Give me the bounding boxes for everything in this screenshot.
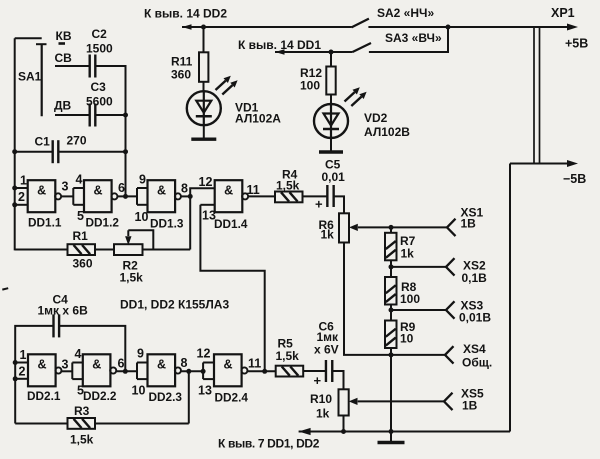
wire [332,371,343,389]
svg-text:0,01В: 0,01В [459,311,491,325]
node DD2.3 input tie [137,363,148,380]
LED VD1 emission arrows [216,76,238,95]
connector XS2 [446,258,455,275]
junction dot SA3 riser [446,25,451,30]
junction dot [201,369,206,374]
op-amp DD2.2 gate [83,354,116,386]
junction dot [188,194,193,199]
wire [344,243,445,355]
junction dot [123,113,128,118]
wire [15,37,42,39]
wire [368,26,569,28]
svg-text:100: 100 [300,79,320,93]
svg-text:5: 5 [77,384,84,398]
svg-text:DD1.4: DD1.4 [214,217,248,231]
junction dot [389,225,394,230]
wire [15,378,28,380]
svg-text:C2: C2 [92,27,108,41]
resistor R2 [114,244,143,255]
svg-text:10: 10 [135,210,149,224]
node K vyv 7 arrow [299,428,311,435]
switch SA1 [36,44,47,116]
svg-text:XS4: XS4 [463,342,486,356]
junction dot R11 tap [201,25,206,30]
node DD1.3 input tie [137,188,148,205]
node R6 wiper arrow [349,224,358,231]
wire [128,230,153,249]
svg-text:13: 13 [198,384,212,398]
svg-text:1500: 1500 [86,42,113,56]
wire [203,82,205,92]
capacitor C5 [326,185,328,207]
node R10 wiper arrow [349,398,358,405]
svg-text:&: & [37,184,46,198]
resistor R1 [68,244,96,255]
wire [203,27,205,52]
svg-text:0,1В: 0,1В [462,271,488,285]
svg-text:5: 5 [77,209,84,223]
op-amp DD1.3 gate [148,180,181,212]
wire [189,196,191,249]
svg-text:DD1.1: DD1.1 [28,216,62,230]
connector XS4 [445,346,454,363]
svg-text:360: 360 [73,257,93,271]
wire [247,370,276,372]
svg-text:5600: 5600 [86,95,113,109]
wire [358,226,447,228]
junction dot [12,149,17,154]
svg-text:270: 270 [67,134,87,148]
ground [191,137,216,140]
wire [390,260,392,277]
svg-text:R3: R3 [74,404,90,418]
svg-text:0,01: 0,01 [322,170,346,184]
svg-text:3: 3 [62,180,69,194]
node DD1.2 input tie [73,188,84,205]
op-amp DD1.4 gate [215,180,248,212]
junction dot [12,186,17,191]
svg-text:6: 6 [118,181,125,195]
svg-text:12: 12 [199,175,213,189]
svg-text:2: 2 [19,365,26,379]
svg-text:К выв. 7 DD1, DD2: К выв. 7 DD1, DD2 [218,437,320,451]
svg-text:АЛ102В: АЛ102В [364,125,410,139]
wire [390,432,392,442]
svg-text:&: & [92,358,101,372]
connector XP1 pair [534,27,540,164]
svg-text:1В: 1В [462,399,478,413]
wire [181,370,203,372]
junction dot [262,369,267,374]
wire [299,431,510,433]
op-amp DD2.4 gate [214,354,247,386]
junction dot [123,149,128,154]
svg-text:DD1, DD2 К155ЛА3: DD1, DD2 К155ЛА3 [120,298,229,312]
wire [96,66,125,115]
wire [200,204,214,206]
svg-text:9: 9 [139,173,146,187]
svg-text:6: 6 [118,357,125,371]
svg-text:−5В: −5В [563,172,586,186]
svg-text:1: 1 [20,174,27,188]
junction dot [389,308,394,313]
svg-text:10: 10 [132,384,146,398]
wire [95,249,114,251]
wire [2,288,8,289]
wire [188,371,190,423]
junction dot [341,429,346,434]
capacitor C4 [52,314,54,337]
svg-text:1мк x 6В: 1мк x 6В [38,304,89,318]
svg-text:1k: 1k [401,247,415,261]
wire [190,188,215,196]
svg-text:АЛ102А: АЛ102А [235,112,281,126]
wire [510,163,569,165]
svg-text:12: 12 [197,347,211,361]
svg-text:R10: R10 [310,392,332,406]
svg-text:+: + [314,373,322,388]
wire [60,326,126,371]
resistor R12 [326,67,335,95]
svg-text:C3: C3 [91,80,107,94]
svg-text:К выв. 14 DD2: К выв. 14 DD2 [144,7,227,21]
junction dot [123,194,128,199]
svg-text:К выв. 14 DD1: К выв. 14 DD1 [238,38,321,52]
wire [330,95,332,106]
wire [15,249,68,251]
resistor R7 [385,233,397,260]
wire [330,52,332,67]
svg-text:1,5k: 1,5k [276,179,300,193]
wire [391,266,446,268]
wire [182,26,352,28]
svg-text:R11: R11 [171,55,193,69]
svg-text:DD1.3: DD1.3 [150,217,184,231]
resistor R10 potentiometer [339,389,349,415]
wire [509,164,511,432]
resistor R5 [276,366,304,377]
wire [181,195,190,197]
wire [143,249,191,251]
svg-text:&: & [157,358,166,372]
wire [59,151,125,153]
junction dot [12,202,17,207]
svg-text:&: & [37,358,46,372]
wire [61,195,73,197]
svg-text:КВ: КВ [56,29,72,43]
svg-text:8: 8 [181,356,188,370]
svg-text:+: + [315,197,323,212]
wire [15,362,28,364]
wire [391,309,446,311]
op-amp DD2.3 gate [148,354,181,386]
node +5V arrow [567,24,578,31]
junction dot [123,369,128,374]
svg-text:1,5k: 1,5k [276,349,300,363]
ground [319,150,343,153]
wire [334,196,344,213]
LED VD1 [187,91,221,125]
wire [330,138,332,151]
wire [248,195,275,197]
wire [95,423,189,425]
op-amp DD2.1 gate [28,354,61,386]
connector XS1 [447,219,456,236]
svg-text:C1: C1 [35,135,51,149]
svg-text:Общ.: Общ. [462,356,492,370]
svg-text:1В: 1В [461,217,477,231]
capacitor C6 [325,360,327,382]
wire [15,326,53,424]
LED VD2 [314,104,348,138]
junction dot [13,376,18,381]
wire [15,151,52,153]
wire [390,227,392,232]
wire [96,114,125,116]
LED VD2 emission arrows [345,87,367,106]
svg-text:DD2.3: DD2.3 [149,390,183,404]
wire [55,114,89,116]
wire [116,370,137,372]
wire [203,125,205,138]
connector XS5 [444,393,453,410]
svg-text:4: 4 [76,173,83,187]
switch SA2 [352,19,369,28]
svg-text:&: & [93,184,102,198]
op-amp DD1.2 gate [84,180,117,212]
resistor R9 [385,321,397,349]
svg-text:4: 4 [75,347,82,361]
wire [358,400,444,402]
svg-text:x 6V: x 6V [314,343,339,357]
connector XS3 [446,301,455,318]
wire [14,38,16,250]
wire [390,348,392,432]
svg-text:VD2: VD2 [364,111,388,125]
svg-text:+5В: +5В [565,37,588,51]
svg-text:360: 360 [171,68,191,82]
resistor R3 [68,418,96,429]
wire [343,416,345,432]
node K vyv 14 DD2 arrow [182,24,192,30]
wire [15,187,28,189]
svg-text:1: 1 [20,348,27,362]
resistor R8 [385,277,397,305]
wire [390,305,392,321]
node R2 wiper [127,230,129,236]
junction dot [389,264,394,269]
svg-text:XP1: XP1 [551,6,575,20]
wire [125,115,127,196]
junction dot [389,352,394,357]
svg-text:1k: 1k [316,407,330,421]
wire [15,204,28,206]
svg-text:SA1: SA1 [18,70,42,84]
junction dot R12 tap [329,50,334,55]
capacitor C1 [52,140,54,163]
svg-text:DD2.4: DD2.4 [215,391,249,405]
junction dot [389,429,394,434]
wire [275,51,353,53]
svg-text:100: 100 [400,292,420,306]
node DD2.4 input tie [203,363,214,380]
node KV contact [59,42,66,45]
svg-text:8: 8 [181,182,188,196]
svg-text:&: & [224,184,233,198]
svg-text:1k: 1k [321,228,335,242]
svg-text:R1: R1 [73,229,89,243]
junction dot [13,360,18,365]
svg-text:СВ: СВ [55,51,73,65]
switch SA3 [353,43,372,52]
resistor R4 [275,192,303,203]
wire [303,370,326,372]
wire [55,65,89,67]
svg-text:DD2.2: DD2.2 [83,389,117,403]
resistor R11 [199,52,208,82]
ground [378,441,405,444]
wire [369,27,448,52]
wire [303,195,328,197]
node -5V arrow [567,160,578,167]
op-amp DD1.1 gate [28,180,61,212]
svg-text:SA2 «НЧ»: SA2 «НЧ» [377,6,434,20]
svg-text:1,5k: 1,5k [70,433,94,447]
svg-text:&: & [157,184,166,198]
svg-text:DD1.2: DD1.2 [86,216,120,230]
svg-text:1,5k: 1,5k [120,271,144,285]
svg-text:&: & [223,358,232,372]
svg-text:ДВ: ДВ [54,99,72,113]
svg-text:2: 2 [18,190,25,204]
resistor R6 potentiometer [339,213,349,242]
junction dot [186,369,191,374]
wire [61,370,72,372]
svg-text:DD2.1: DD2.1 [27,389,61,403]
svg-text:11: 11 [248,357,261,371]
svg-text:10: 10 [400,332,414,346]
svg-text:9: 9 [137,347,144,361]
capacitor C3 [88,104,90,127]
svg-text:SA3 «ВЧ»: SA3 «ВЧ» [385,31,442,45]
node DD2.2 input tie [72,363,83,380]
svg-text:11: 11 [247,183,260,197]
wire [15,423,67,425]
capacitor C2 [88,55,90,78]
node K vyv 14 DD1 arrow [275,49,285,55]
wire [117,195,137,197]
wire [200,205,264,371]
svg-text:3: 3 [62,358,69,372]
